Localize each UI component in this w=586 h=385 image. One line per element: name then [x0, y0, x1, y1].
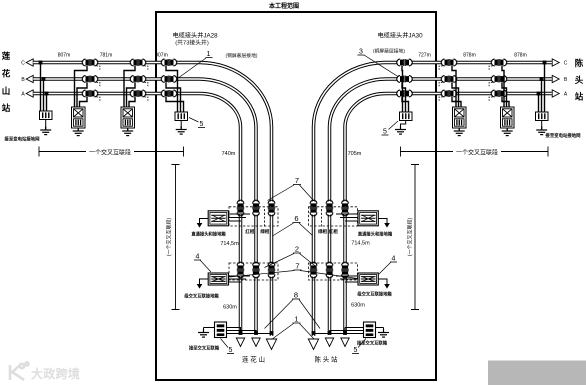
ground lead (JA28 box)	[180, 121, 182, 130]
bond wires joints JA30 to link box	[402, 66, 409, 112]
ground (bottom left bus)	[198, 328, 209, 338]
cable phase A (right run with bend)	[345, 94, 552, 335]
length label 630m (right)	[351, 303, 365, 309]
termination node at x=345.0	[343, 331, 347, 335]
leader for item 4 left	[200, 260, 211, 272]
cable joint: phase B, joint well JA28 (item 1)	[161, 76, 177, 83]
link box: bottom right (item 5)	[364, 322, 376, 338]
leaders item 7 row1	[268, 185, 315, 201]
cable joint row1: phase B at x=329.5	[326, 200, 333, 216]
leaders item 1 bottom	[272, 324, 315, 340]
watermark logo (light grey)	[10, 362, 29, 380]
tap node phase C (right station side)	[543, 61, 547, 65]
svg-text:(一个交叉互联段): (一个交叉互联段)	[407, 218, 414, 257]
ground (JA30 box)	[395, 126, 406, 134]
svg-text:C: C	[564, 61, 568, 67]
bond wires taps to link box (left station side)	[41, 63, 47, 112]
svg-text:陈头站: 陈头站	[575, 58, 584, 102]
ground bus bottom right	[314, 328, 384, 334]
leaders item 8	[265, 300, 321, 329]
ground (left col1 box)	[73, 128, 84, 136]
underline item 5 JA30	[382, 134, 389, 136]
underline item 5 br	[352, 353, 359, 355]
ground lead (left col2 box)	[127, 128, 129, 131]
dashed bonding enclosure row2 right	[309, 263, 358, 280]
svg-text:一个交叉互联段: 一个交叉互联段	[456, 149, 498, 157]
continuation arrow phase B (right duct)	[325, 338, 333, 347]
item number 2	[295, 245, 299, 254]
bond wires joints rcol2 to cross box	[502, 66, 509, 107]
length label 714,5m (left)	[220, 241, 239, 247]
svg-text:7: 7	[295, 176, 299, 185]
cable joint row2: phase C at x=271.5	[268, 262, 275, 278]
ground arrow row2 right	[378, 279, 390, 289]
leader for item 5 bottom-right	[358, 339, 366, 348]
phase tag row1 b	[260, 228, 269, 235]
svg-text:781m: 781m	[100, 53, 113, 59]
termination node at x=256.0	[254, 331, 258, 335]
dashed bonding enclosure row1 left	[229, 207, 278, 226]
svg-text:878m: 878m	[514, 53, 527, 59]
underline item 4 right	[390, 261, 397, 263]
cable joint: phase C, joint well JA30 (item 3)	[397, 59, 413, 66]
underline item 7 row1	[293, 184, 301, 186]
svg-text:727m: 727m	[418, 53, 431, 59]
ground arrow row1 right	[378, 219, 390, 228]
underline item 6	[293, 222, 301, 224]
cable joint: phase C, left column 1	[82, 59, 98, 66]
phase letter A (left)	[21, 92, 25, 98]
note: 直通接头和接地箱 (row1 left)	[191, 231, 226, 238]
leader for item 5 (JA30)	[389, 121, 399, 130]
bond wires joints JA28 to link box	[166, 66, 184, 112]
continuation arrow phase C (left duct)	[266, 339, 276, 350]
dashed sheath links rcol2	[489, 66, 492, 101]
svg-text:630m: 630m	[223, 305, 237, 311]
bond bus row2 left	[229, 276, 251, 282]
item number 5 (bottom left)	[229, 347, 233, 354]
continuation arrow phase A (right duct)	[341, 338, 349, 347]
underline item 8	[292, 298, 300, 300]
termination node at x=271.5	[270, 331, 274, 335]
vertical dimension: (一个交叉互联段) left	[166, 165, 180, 310]
dashed sheath links col1	[97, 66, 100, 101]
terminal arrow phase A (right)	[552, 90, 559, 97]
svg-text:接至变电站接地网: 接至变电站接地网	[544, 132, 581, 139]
cable joint row1: phase C at x=313.5	[310, 200, 317, 216]
svg-text:一个交叉互联段: 一个交叉互联段	[89, 149, 131, 157]
direction label bottom left	[242, 355, 265, 364]
watermark text 大政跨境	[31, 366, 80, 381]
cable joint row1: phase A at x=345.0	[341, 200, 348, 216]
underline item 5 bl	[227, 353, 234, 355]
cable phase B (left run with bend)	[33, 79, 256, 335]
svg-text:5: 5	[383, 129, 387, 136]
cable joint: phase B, left column 2	[130, 76, 146, 83]
note: 接至变电站接地网 (left)	[3, 136, 40, 143]
leaders item 6	[273, 223, 313, 236]
svg-text:(铜屏蔽层接地): (铜屏蔽层接地)	[226, 52, 258, 59]
note: 级交叉互联接地箱 (row2 right)	[356, 291, 392, 298]
svg-text:6: 6	[294, 214, 298, 223]
svg-text:级交叉互联接地箱: 级交叉互联接地箱	[356, 291, 392, 298]
svg-text:(铜屏蔽层接地): (铜屏蔽层接地)	[373, 48, 405, 55]
bond bus row1 right	[336, 214, 358, 221]
cable joint: phase B, right column 1	[441, 76, 457, 83]
leader for item 5 bottom-left	[221, 339, 229, 348]
tap node phase A (left station side)	[45, 92, 49, 96]
note: 接至交叉互联箱 (bottom left)	[189, 345, 220, 352]
dashed bond stub row1 right	[321, 209, 323, 227]
note: 接至变电站接地网 (right)	[544, 132, 581, 139]
svg-text:4: 4	[392, 256, 396, 263]
phase letter A (right)	[564, 92, 568, 98]
svg-text:705m: 705m	[348, 151, 362, 157]
leader for item 4 right	[379, 262, 391, 274]
title label: 本工程范围	[269, 2, 299, 10]
cable joint: phase A, joint well JA28 (item 1)	[161, 90, 177, 97]
ground (bottom right bus)	[378, 328, 389, 338]
bond wires joints rcol1 to cross box	[452, 66, 461, 107]
tap node phase C (left station side)	[39, 61, 43, 65]
underline item 4 left	[194, 259, 201, 261]
svg-text:630m: 630m	[351, 303, 365, 309]
cable joint: phase C, joint well JA28 (item 1)	[161, 59, 177, 66]
note: (铜屏蔽层接地) left	[226, 52, 258, 59]
cable joint: phase B, joint well JA30 (item 3)	[397, 76, 413, 83]
link box: cross-bonding box (left col 1)	[72, 107, 86, 128]
ground arrow row1 left	[197, 219, 209, 228]
phase letter B (right)	[564, 77, 568, 83]
length label 740m (left duct)	[222, 151, 236, 157]
dimension line: 一个交叉互联段 (right)	[401, 147, 549, 157]
dashed bonding enclosure row2 left	[229, 263, 278, 280]
svg-text:红相: 红相	[245, 228, 254, 235]
cable joint: phase B, right column 2	[491, 76, 507, 83]
bond bus row2 right	[336, 276, 358, 282]
svg-text:807m: 807m	[58, 53, 71, 59]
project-scope border rectangle	[156, 12, 436, 380]
length label 878m (2)	[514, 53, 527, 59]
svg-text:740m: 740m	[222, 151, 236, 157]
link box: cross-bonding box (right col 1)	[453, 107, 467, 128]
terminal arrow phase B (left)	[26, 75, 33, 82]
cable joint: phase C, right column 2	[491, 59, 507, 66]
svg-text:陈 头 站: 陈 头 站	[314, 355, 338, 364]
length label 878m	[463, 53, 476, 59]
cable joint: phase B, left column 1	[82, 76, 98, 83]
leaders item 7 row2	[230, 271, 358, 279]
tap node phase B (left station side)	[42, 77, 46, 81]
underline item 1 top	[206, 57, 213, 59]
tap node phase B (right station side)	[540, 77, 544, 81]
ground (right col2 box)	[502, 128, 513, 136]
cable joint: phase C, right column 1	[441, 59, 457, 66]
leader for item 1	[178, 58, 207, 79]
cable joint row2: phase C at x=313.5	[310, 262, 317, 278]
ground (left station box)	[40, 127, 51, 135]
length label 807m	[58, 53, 71, 59]
cable joint row1: phase B at x=256.0	[252, 200, 259, 216]
svg-text:(共73接头井): (共73接头井)	[175, 39, 209, 47]
cable joint row2: phase A at x=345.0	[341, 262, 348, 278]
note: 直通接头和接地箱 (row1 right)	[358, 231, 393, 238]
cable joint row2: phase B at x=256.0	[252, 262, 259, 278]
svg-text:8: 8	[294, 291, 298, 300]
phase tag row1 c	[318, 228, 327, 235]
svg-text:C: C	[21, 61, 25, 67]
underline item 5 JA28	[198, 127, 205, 129]
leader for item 3	[364, 55, 400, 78]
dimension line: 一个交叉互联段 (left)	[39, 147, 184, 157]
item number 1 (terminations)	[294, 315, 298, 324]
leader for item 5 (JA28)	[189, 118, 199, 123]
item number 7 (row1 joints)	[295, 176, 299, 185]
phase letter B (left)	[21, 77, 25, 83]
svg-text:接至交叉互联箱: 接至交叉互联箱	[189, 345, 220, 352]
direction label bottom right	[314, 355, 338, 364]
cable phase B (right run with bend)	[330, 79, 552, 335]
ground lead (left col1 box)	[77, 128, 79, 131]
svg-text:接至交叉互联箱: 接至交叉互联箱	[357, 340, 388, 347]
ground arrow row2 left	[197, 279, 209, 289]
length label 781m	[100, 53, 113, 59]
cable phase C (left run with bend into vertical duct)	[33, 63, 271, 337]
terminal arrow phase B (right)	[552, 75, 559, 82]
grey corner box	[488, 361, 586, 385]
svg-text:3: 3	[359, 49, 363, 56]
termination node at x=240.5	[239, 331, 243, 335]
link box: cross-bonding box row2 (right, item 4)	[358, 273, 378, 285]
cable joint row2: phase A at x=240.5	[237, 262, 244, 278]
cable joint: phase A, joint well JA30 (item 3)	[397, 90, 413, 97]
ground (JA28 box)	[176, 126, 187, 134]
svg-text:1: 1	[207, 51, 211, 58]
ground lead (JA30 box)	[401, 121, 406, 130]
item number 1	[207, 51, 211, 58]
link box: sheath grounding box at JA28 (item 5)	[175, 112, 188, 121]
item number 6 (bonding leads)	[294, 214, 298, 223]
cable joint: phase A, right column 2	[491, 90, 507, 97]
note: 接至交叉互联箱 (bottom right)	[357, 340, 388, 347]
svg-text:本工程范围: 本工程范围	[269, 2, 299, 10]
terminal arrow phase A (left)	[26, 90, 33, 97]
ground lead (left station box)	[45, 120, 47, 131]
bond bus row1 left	[229, 214, 251, 221]
item number 5 (JA28 box)	[200, 121, 204, 128]
continuation arrow phase A (left duct)	[236, 338, 244, 347]
link box: cross-bonding box row1 (right, item 7)	[358, 211, 378, 226]
phase tag row1 d	[329, 228, 338, 235]
item number 5 (JA30 box)	[383, 129, 387, 136]
ground lead (right col1 box)	[458, 128, 460, 131]
underline item 3 top	[358, 54, 365, 56]
link box: cross-bonding box row1 (left, item 7)	[208, 211, 228, 226]
link box: cross-bonding box row2 (left, item 4)	[208, 273, 228, 285]
svg-text:接至变电站接地网: 接至变电站接地网	[3, 136, 40, 143]
svg-text:红相: 红相	[329, 228, 338, 235]
link box: sheath grounding box at JA30 (item 5)	[400, 112, 413, 121]
link box: direct grounding box (right station side)	[536, 112, 549, 121]
length label 705m (right duct)	[348, 151, 362, 157]
phase letter C (right)	[564, 61, 568, 67]
item number 5 (bottom right)	[354, 347, 358, 354]
link box: direct grounding box (left station side)	[40, 111, 53, 120]
svg-text:5: 5	[354, 347, 358, 354]
svg-text:7: 7	[295, 262, 299, 271]
svg-text:绿相: 绿相	[318, 228, 327, 235]
ground bus bottom left	[204, 328, 272, 334]
label: 电缆接头井JA28	[172, 32, 218, 40]
cable phase C (right run with bend)	[314, 63, 552, 337]
svg-text:直通接头和接地箱: 直通接头和接地箱	[191, 231, 226, 238]
cable joint row2: phase B at x=329.5	[326, 262, 333, 278]
ground (right col1 box)	[454, 128, 465, 136]
cable joint: phase C, left column 2	[130, 59, 146, 66]
svg-text:电缆接头井JA30: 电缆接头井JA30	[377, 32, 423, 40]
terminal arrow phase C (right)	[552, 59, 559, 66]
continuation arrow phase B (left duct)	[252, 338, 260, 347]
svg-text:大政跨境: 大政跨境	[31, 366, 80, 381]
terminal arrow phase C (left)	[26, 59, 33, 66]
length label 630m (left)	[223, 305, 237, 311]
note: 级交叉互联接地箱 (row2 left)	[183, 293, 219, 300]
leaders item 2	[265, 254, 317, 268]
cable phase A (left run with bend)	[33, 93, 240, 334]
svg-text:5: 5	[200, 121, 204, 128]
link box: cross-bonding box (right col 2)	[501, 107, 515, 128]
svg-text:直通接头和接地箱: 直通接头和接地箱	[358, 231, 393, 238]
cable joint: phase A, right column 1	[441, 90, 457, 97]
bond wires taps to link box (right station side)	[539, 63, 545, 113]
cable joint: phase A, left column 2	[130, 90, 146, 97]
tap node phase A (right station side)	[537, 92, 541, 96]
svg-text:绿相: 绿相	[260, 228, 269, 235]
phase letter C (left)	[21, 61, 25, 67]
svg-text:5: 5	[229, 347, 233, 354]
svg-text:714,5m: 714,5m	[220, 241, 239, 247]
ground (left col2 box)	[122, 128, 133, 136]
svg-text:714,5m: 714,5m	[351, 241, 370, 247]
bond wires joints col1 to cross box	[75, 66, 88, 107]
phase tag row1 a	[245, 228, 254, 235]
station label: 陈头站 (right, vertical)	[575, 58, 584, 102]
ground lead (right col2 box)	[506, 128, 508, 131]
label: 电缆接头井JA30	[377, 32, 423, 40]
length label 727m	[418, 53, 431, 59]
item number 4 (right)	[392, 256, 396, 263]
length label 714,5m (right)	[351, 241, 370, 247]
item number 7 (row2 joints)	[295, 262, 299, 271]
bond wires joints col2 to cross box	[124, 66, 135, 107]
svg-text:级交叉互联接地箱: 级交叉互联接地箱	[183, 293, 219, 300]
item number 8	[294, 291, 298, 300]
underline item 1 bottom	[293, 322, 301, 324]
link box: bottom left (item 5)	[215, 322, 227, 338]
svg-text:1: 1	[294, 315, 298, 324]
vertical dimension: (一个交叉互联段) right	[407, 165, 420, 310]
cable joint: phase A, left column 1	[82, 90, 98, 97]
underline item 2	[293, 252, 301, 254]
svg-text:2: 2	[295, 245, 299, 254]
length label 807m (2)	[155, 53, 168, 59]
svg-text:807m: 807m	[155, 53, 168, 59]
dashed sheath links rcol1	[439, 66, 442, 101]
dashed bond stub row1 left	[264, 209, 266, 227]
termination node at x=313.5	[312, 331, 316, 335]
underline item 7 row2	[294, 269, 302, 271]
dashed sheath links col2	[145, 66, 148, 101]
continuation arrow phase C (right duct)	[308, 339, 318, 350]
link box: cross-bonding box (left col 2)	[121, 107, 135, 128]
svg-text:4: 4	[196, 254, 200, 261]
note: (铜屏蔽层接地) right	[373, 48, 405, 55]
ground lead (right station box)	[541, 121, 543, 131]
item number 3	[359, 49, 363, 56]
termination node at x=329.5	[328, 331, 332, 335]
ground (right station box)	[536, 127, 547, 135]
dashed bonding enclosure row1 right	[309, 207, 358, 226]
svg-text:878m: 878m	[463, 53, 476, 59]
label: (共73接头井)	[175, 39, 209, 47]
station label: 莲花山站 (left, vertical)	[2, 51, 11, 113]
cable joint row1: phase A at x=240.5	[237, 200, 244, 216]
svg-text:莲 花 山: 莲 花 山	[242, 355, 265, 364]
cable joint row1: phase C at x=271.5	[268, 200, 275, 216]
svg-text:电缆接头井JA28: 电缆接头井JA28	[172, 32, 218, 40]
item number 4 (left)	[196, 254, 200, 261]
svg-text:(一个交叉互联段): (一个交叉互联段)	[166, 218, 173, 257]
